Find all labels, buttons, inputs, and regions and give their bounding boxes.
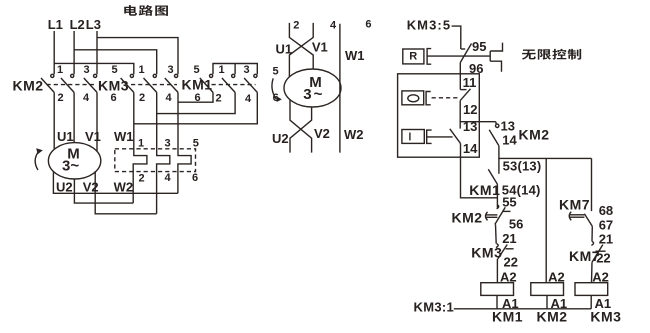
- svg-text:KM3: KM3: [471, 244, 502, 260]
- start button I: [402, 130, 424, 144]
- svg-text:2: 2: [139, 172, 145, 184]
- wire KM2 pole1 to motor U1: [53, 92, 55, 149]
- svg-text:KM3:5: KM3:5: [407, 18, 452, 33]
- wire motor V2 to FR2: [74, 179, 133, 203]
- wire 56 to 21: [495, 225, 498, 244]
- contactor KM2 linkage (dashed): [47, 84, 97, 86]
- winding wire U2 to V2 (crossing): [290, 100, 312, 153]
- coil KM3: [575, 283, 608, 296]
- svg-text:KM2: KM2: [452, 210, 483, 226]
- svg-text:U2: U2: [56, 180, 73, 195]
- svg-text:5: 5: [194, 64, 200, 76]
- svg-text:3~: 3~: [303, 86, 324, 103]
- contactor KM2 pole3 contact: [84, 74, 97, 92]
- svg-text:4: 4: [83, 92, 90, 104]
- svg-text:KM3: KM3: [590, 309, 621, 325]
- svg-text:KM2: KM2: [537, 309, 568, 325]
- KM1 aux blade (53-54): [488, 169, 497, 184]
- contact 95-96 blade (FR NC): [460, 44, 471, 63]
- svg-text:W2: W2: [344, 127, 364, 142]
- wire 14 down and right: [461, 143, 498, 197]
- wire L2 drop: [73, 31, 75, 74]
- svg-text:4: 4: [330, 19, 337, 31]
- wire coil KM3 to bus: [590, 295, 592, 308]
- svg-text:53(13): 53(13): [503, 159, 542, 174]
- svg-text:1: 1: [138, 137, 144, 149]
- phase swap arrow: [272, 78, 282, 102]
- svg-text:14: 14: [502, 133, 517, 148]
- svg-text:4: 4: [245, 93, 252, 105]
- wire KM1 star bridge: [213, 64, 257, 75]
- connector fork: [490, 43, 502, 72]
- wire bus to coil KM2: [545, 158, 547, 282]
- contactor KM1 pole1 contact: [200, 74, 213, 92]
- svg-text:3: 3: [165, 137, 171, 149]
- svg-text:95: 95: [472, 39, 486, 54]
- svg-text:2: 2: [58, 92, 64, 104]
- svg-text:KM1: KM1: [469, 182, 500, 198]
- contact 95 seat: [461, 48, 465, 50]
- svg-text:12: 12: [463, 102, 477, 117]
- KM2 NC seat: [502, 210, 510, 212]
- KM2 NC blade (55-56): [495, 207, 506, 224]
- svg-text:21: 21: [599, 232, 613, 247]
- contact 21 hook right: [591, 241, 593, 245]
- FR heater 2 with wire from KM3 pole2: [157, 92, 170, 213]
- svg-text:22: 22: [596, 251, 610, 266]
- wire L3 drop: [96, 31, 98, 74]
- wire 22 to coil KM1: [496, 259, 498, 283]
- coil KM2: [531, 283, 564, 296]
- stop button O: [402, 91, 424, 105]
- winding wire 2 to V1 (crossing): [289, 23, 313, 69]
- motor M2 (winding diagram): [284, 69, 341, 107]
- contact 13-14 blade (start NO): [450, 129, 461, 144]
- contactor KM3 linkage (dashed): [131, 84, 177, 86]
- winding wire V2 to U2 (crossing): [290, 107, 312, 153]
- winding wire 4 to U1 (crossing): [289, 23, 313, 77]
- wire KM3:5 to contact 95: [452, 26, 461, 49]
- wire motor U2 to FR6: [53, 172, 177, 193]
- stop button link (dashed): [432, 97, 460, 99]
- svg-text:5: 5: [193, 137, 199, 149]
- svg-text:56: 56: [509, 217, 523, 232]
- svg-text:22: 22: [504, 255, 518, 270]
- svg-text:1: 1: [219, 64, 225, 76]
- contactor KM1 linkage (dashed): [212, 84, 256, 86]
- contactor KM1 pole3 contact: [244, 74, 257, 92]
- rotation arrow: [35, 148, 43, 170]
- wire 54 to 55: [496, 184, 498, 207]
- svg-text:KM2: KM2: [13, 78, 44, 94]
- svg-text:2: 2: [139, 92, 145, 104]
- svg-text:L3: L3: [86, 17, 101, 32]
- bottom bus KM3:1: [454, 308, 591, 310]
- relay R box: [403, 49, 424, 64]
- wire R to connector: [427, 55, 490, 57]
- svg-text:2: 2: [216, 93, 222, 105]
- contactor KM1 pole2 contact: [222, 74, 235, 92]
- svg-text:W2: W2: [114, 180, 134, 195]
- FR heater 3 with wire from KM3 pole3: [178, 92, 191, 193]
- svg-text:3~: 3~: [62, 158, 79, 175]
- wire L1 drop: [53, 31, 55, 74]
- svg-text:55: 55: [502, 195, 516, 210]
- label 无限控制: [522, 50, 536, 60]
- winding wire W: [339, 24, 341, 153]
- contactor KM3 pole1 contact: [121, 74, 134, 92]
- svg-text:3: 3: [84, 64, 90, 76]
- pushbutton station box: [398, 74, 480, 157]
- svg-text:6: 6: [111, 92, 117, 104]
- KM3 NC seat: [506, 248, 514, 250]
- svg-text:13: 13: [463, 119, 477, 134]
- wire start button to blade: [427, 136, 453, 138]
- svg-text:3: 3: [244, 64, 250, 76]
- motor M1: [48, 143, 100, 179]
- relay R terminal bracket: [427, 49, 431, 65]
- wire junction to KM2 aux: [460, 121, 496, 123]
- svg-text:W1: W1: [345, 48, 365, 63]
- contactor KM2 pole2 contact: [61, 74, 74, 92]
- contactor KM3 pole3 contact: [165, 74, 178, 92]
- wire motor W2 to FR4: [95, 171, 156, 214]
- svg-text:1: 1: [57, 64, 63, 76]
- svg-text:6: 6: [192, 172, 198, 184]
- wire L1 branch to KM3 pole1: [54, 63, 134, 74]
- wire coil KM1 to bus: [496, 295, 498, 308]
- svg-text:1: 1: [139, 64, 145, 76]
- stop button bracket: [426, 92, 431, 105]
- KM2 aux blade: [489, 130, 499, 146]
- wire L2 branch to KM3 pole2: [74, 50, 157, 74]
- svg-text:U1: U1: [276, 42, 293, 57]
- svg-text:L2: L2: [70, 17, 85, 32]
- KM7 actuation arrow: [569, 212, 584, 221]
- svg-text:KM1: KM1: [182, 77, 213, 93]
- wire 96 to contact 11: [459, 63, 461, 90]
- svg-text:13: 13: [501, 119, 515, 134]
- svg-text:67: 67: [599, 218, 613, 233]
- svg-text:U2: U2: [272, 131, 289, 146]
- svg-text:V1: V1: [85, 129, 101, 144]
- svg-text:W1: W1: [114, 129, 134, 144]
- contact 11 seat: [460, 89, 466, 91]
- svg-text:21: 21: [502, 231, 516, 246]
- svg-text:KM2: KM2: [519, 127, 550, 143]
- KM3 NC blade (21-22): [498, 245, 507, 259]
- coil KM1: [481, 283, 514, 296]
- wire KM2 pole3 to motor W1: [96, 92, 98, 151]
- svg-text:R: R: [409, 51, 417, 63]
- svg-text:V1: V1: [312, 40, 328, 55]
- svg-text:L1: L1: [48, 17, 63, 32]
- thermal overload FR box (dashed): [115, 149, 196, 172]
- start button bracket: [427, 130, 432, 143]
- svg-text:KM1: KM1: [492, 309, 523, 325]
- svg-text:5: 5: [273, 66, 279, 78]
- svg-text:2: 2: [293, 19, 299, 31]
- KM2 aux contact 13 circle: [496, 124, 499, 127]
- KM7 NC blade (21-22): [592, 245, 603, 263]
- wire KM1 pole2 bottom link: [157, 92, 235, 113]
- control bus horizontal: [499, 157, 592, 159]
- contact 11-12 blade (stop NC): [460, 89, 470, 101]
- wire 12 to 13 junction: [459, 101, 461, 129]
- contactor KM2 pole1 contact: [41, 74, 54, 92]
- svg-text:3: 3: [168, 64, 174, 76]
- wire KM1 pole3 bottom link: [134, 92, 257, 123]
- wire bus down right branch: [591, 158, 593, 211]
- FR heater 1 with wire from KM3 pole1: [133, 92, 147, 203]
- wire 22 to coil KM3: [591, 262, 594, 282]
- svg-text:68: 68: [599, 203, 613, 218]
- svg-text:11: 11: [463, 75, 477, 90]
- wire KM2 pole2 to motor V1: [73, 92, 75, 142]
- KM2 NC actuation arrow: [485, 212, 497, 221]
- contactor KM3 pole2 contact: [144, 74, 157, 92]
- title 电路图: [124, 5, 137, 16]
- svg-text:4: 4: [165, 172, 172, 184]
- wire coil KM2 to bus: [546, 295, 548, 308]
- wire KM1 pole1 bottom link: [178, 92, 213, 102]
- KM7 NC seat: [596, 250, 606, 252]
- contact 21 hook: [496, 244, 498, 248]
- svg-text:U1: U1: [57, 129, 74, 144]
- svg-text:KM7: KM7: [559, 197, 590, 213]
- contact 55 hook: [497, 205, 499, 209]
- svg-text:KM3:1: KM3:1: [414, 300, 455, 315]
- svg-text:14: 14: [463, 141, 478, 156]
- svg-text:4: 4: [166, 92, 173, 104]
- wire 67 to 21: [591, 226, 593, 241]
- svg-text:V2: V2: [83, 180, 99, 195]
- wire bus to KM1 aux: [498, 158, 500, 173]
- wire KM2 aux to bus junction: [498, 146, 500, 159]
- wire KM1 pole2 top stub: [234, 64, 236, 75]
- KM7 blade (67-68): [584, 214, 592, 227]
- svg-text:5: 5: [112, 64, 118, 76]
- svg-text:6: 6: [365, 19, 371, 31]
- wire L3 branch to KM3 pole3: [97, 38, 178, 75]
- svg-text:V2: V2: [314, 126, 330, 141]
